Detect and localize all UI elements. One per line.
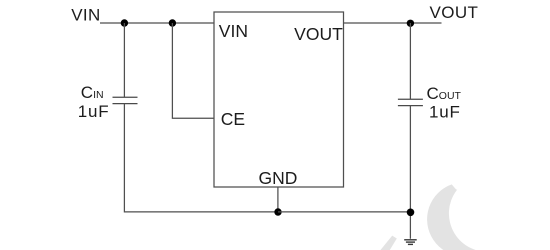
junction dot at CIN branch <box>121 19 128 26</box>
watermark diagonal bar <box>381 236 397 250</box>
svg-text:COUT: COUT <box>427 84 462 103</box>
wire: CIN bottom lead + bottom rail left segment <box>124 104 278 212</box>
wire: bottom rail right segment <box>278 211 411 213</box>
svg-text:GND: GND <box>259 168 298 188</box>
svg-text:CE: CE <box>221 109 245 129</box>
wire: VIN to IC VIN pin <box>100 22 214 24</box>
svg-text:VOUT: VOUT <box>430 3 479 22</box>
wire: GND pin to bottom rail <box>277 187 279 212</box>
capacitor CIN <box>113 97 138 103</box>
svg-text:VOUT: VOUT <box>294 24 343 44</box>
wire: COUT top lead <box>409 23 411 99</box>
svg-text:1uF: 1uF <box>429 103 461 122</box>
watermark crescent <box>427 182 483 250</box>
wire: CE branch <box>172 23 214 118</box>
ground <box>404 240 417 245</box>
svg-text:VIN: VIN <box>219 21 248 41</box>
svg-text:1uF: 1uF <box>78 102 110 121</box>
IC U1 body <box>214 12 344 187</box>
capacitor COUT <box>398 99 423 105</box>
junction dot at COUT branch <box>407 20 414 27</box>
junction dot at CE branch <box>169 19 176 26</box>
junction dot bottom-right <box>407 209 415 217</box>
wire: COUT bottom lead down to ground <box>409 106 411 239</box>
wire: IC VOUT pin to VOUT terminal <box>344 22 442 24</box>
svg-text:CIN: CIN <box>81 83 104 102</box>
junction dot GND rail <box>274 208 281 215</box>
wire: CIN top lead <box>123 23 125 97</box>
svg-text:VIN: VIN <box>71 5 101 24</box>
